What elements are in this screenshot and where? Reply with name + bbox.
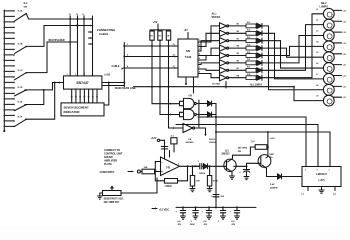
wire row 4 to lamp 5 xyxy=(269,48,324,57)
svg-text:S-1B: S-1B xyxy=(18,44,23,46)
svg-text:+12 VDC: +12 VDC xyxy=(159,208,170,212)
svg-text:SEVEN SEGMENT: SEVEN SEGMENT xyxy=(64,106,90,110)
connecting cable trunk wire xyxy=(92,16,94,76)
pullup top rail xyxy=(150,29,171,31)
7442 ground stubs xyxy=(185,77,187,84)
wire scan rail to lamp 9 xyxy=(293,87,295,101)
diode D11 1N914 xyxy=(204,164,208,169)
lamp I8 NE-2 neon bulb xyxy=(323,84,334,95)
inverter gate U4d xyxy=(220,45,227,51)
svg-text:15: 15 xyxy=(173,44,175,46)
svg-text:MULTIPLEXER: MULTIPLEXER xyxy=(49,40,65,42)
wire loop 7447 to indicator xyxy=(104,83,109,106)
svg-text:6: 6 xyxy=(92,74,93,76)
svg-text:SN7404: SN7404 xyxy=(212,16,221,19)
capacitor C3 electrolytic xyxy=(246,166,248,169)
wire lamp9 feed continues xyxy=(294,100,324,102)
seven segment indicator box xyxy=(61,103,104,116)
lamp I5 return wire xyxy=(333,53,341,55)
wire inverter out row 8 xyxy=(229,77,246,79)
wire row 1 to lamp 8 xyxy=(269,26,324,90)
svg-text:7442: 7442 xyxy=(185,55,192,59)
filter capacitor C5 xyxy=(195,206,197,208)
resistor R8 xyxy=(246,76,256,80)
7442 Vcc pin stub xyxy=(187,33,189,40)
switch S-1D wiper arm xyxy=(15,90,27,96)
inverter gate U4e xyxy=(220,52,227,58)
svg-text:25V: 25V xyxy=(232,224,236,226)
feedback resistor R13 1MEG xyxy=(178,166,188,181)
svg-text:MAIN SCAN LINE: MAIN SCAN LINE xyxy=(115,87,136,90)
diode D8 1N914 xyxy=(257,75,262,80)
svg-text:INDICATOR: INDICATOR xyxy=(64,110,81,114)
wire from S-1F riser xyxy=(26,83,55,120)
svg-text:6: 6 xyxy=(178,164,179,166)
wires 7442 outputs to inverter inputs xyxy=(198,26,220,42)
gate U5c inverter xyxy=(183,124,193,133)
Q2 emitter wire xyxy=(262,165,277,176)
wire row 7 to lamp 2 xyxy=(269,25,324,71)
svg-text:AUDIO INPUT: AUDIO INPUT xyxy=(100,171,116,174)
wire main scan rail xyxy=(112,85,124,87)
wire row 5 to lamp 4 xyxy=(269,46,324,55)
wire inverter out row 6 xyxy=(229,62,246,64)
gate U5a xyxy=(184,98,195,108)
transistor Q1 2N2222 xyxy=(224,159,236,171)
filter capacitor C8 xyxy=(236,206,238,208)
audio input jack J1 xyxy=(137,170,140,173)
lamp I8 return wire xyxy=(333,85,341,87)
svg-text:(+5V): (+5V) xyxy=(319,179,325,182)
svg-text:12: 12 xyxy=(76,14,78,16)
svg-text:SN7400: SN7400 xyxy=(186,141,195,144)
wire inverter out row 7 xyxy=(229,69,246,71)
svg-text:LM340-5: LM340-5 xyxy=(316,172,327,176)
diode D1 1N914 xyxy=(257,23,262,28)
wire inverter out row 2 xyxy=(229,32,246,34)
spare inverter tie xyxy=(225,82,227,89)
Q1 collector wire xyxy=(228,155,251,162)
wire BCD line 4 to 7442 xyxy=(124,67,178,69)
wire from S-1A to cable trunk xyxy=(26,14,92,20)
svg-text:400 OHM: 400 OHM xyxy=(238,147,248,150)
lamp I1 return wire xyxy=(333,9,341,11)
svg-text:1/6 7404: 1/6 7404 xyxy=(212,83,221,86)
cable conductor vertical xyxy=(123,43,125,87)
inverter gate U4a xyxy=(220,23,227,29)
wire 7447 left input xyxy=(53,82,64,84)
wire gate U5a out to diode D9 xyxy=(196,103,207,105)
svg-text:25V: 25V xyxy=(204,224,208,226)
diode D3 1N914 xyxy=(257,38,262,43)
switch bank S1 common bus wire xyxy=(3,10,5,131)
switch S-1C wiper arm xyxy=(15,73,27,80)
wire zener to regulator xyxy=(283,176,302,178)
svg-text:470K: 470K xyxy=(213,180,218,183)
inverter gate U4b xyxy=(220,30,227,36)
switch S-1F wiper arm xyxy=(15,119,27,126)
svg-text:ALL 1N914: ALL 1N914 xyxy=(250,84,263,87)
wire rail to regulator pin 1 xyxy=(198,117,306,167)
pullup R9 drop wire to gate G1 xyxy=(151,30,153,31)
inverter gate U4c xyxy=(220,38,227,44)
svg-text:−: − xyxy=(161,161,163,165)
svg-text:11: 11 xyxy=(82,14,84,16)
wire to Q1 base xyxy=(208,165,227,167)
svg-text:CONNECTING: CONNECTING xyxy=(97,28,115,32)
lamp I5 NE-2 neon bulb xyxy=(323,52,334,63)
IC U2 SN7447 decoder-driver box xyxy=(64,76,102,89)
resistor R11 1K xyxy=(166,31,170,40)
resistor R7 xyxy=(246,68,256,72)
resistor R12 10K xyxy=(142,169,155,174)
regulator bottom stubs xyxy=(307,187,309,191)
svg-text:2: 2 xyxy=(84,74,85,76)
lamp I1 NE-2 neon bulb xyxy=(323,8,334,19)
transistor Q2 power xyxy=(258,155,271,168)
svg-text:2N2222: 2N2222 xyxy=(222,154,231,156)
wire BCD line 2 to 7442 xyxy=(124,56,178,58)
diode D9 xyxy=(208,101,212,106)
wire 7447 right pin to cable node xyxy=(102,82,124,84)
wire R17 to tap xyxy=(267,146,268,148)
svg-text:1 MEG: 1 MEG xyxy=(165,186,172,188)
svg-text:+5V: +5V xyxy=(188,96,193,98)
switch bank contact stubs xyxy=(4,10,13,12)
7447 segment output wires a-g xyxy=(71,89,73,103)
diode D10 xyxy=(208,112,212,117)
pullup R10 drop wire to gate G2 xyxy=(160,40,180,114)
diode D6 1N914 xyxy=(257,60,262,65)
svg-text:S-1E: S-1E xyxy=(18,102,23,104)
resistor R1 xyxy=(246,24,256,28)
wire inverter out row 3 xyxy=(229,40,246,42)
inverter gate U4f xyxy=(220,60,227,66)
wire BCD line 1 to 7442 xyxy=(124,45,178,47)
lamp I6 NE-2 neon bulb xyxy=(323,63,334,74)
lamp I4 return wire xyxy=(333,42,341,44)
lamp I7 NE-2 neon bulb xyxy=(323,74,334,85)
resistor R15 470K to ground xyxy=(209,166,211,175)
svg-text:10K: 10K xyxy=(144,167,148,169)
wire 7447 pin risers xyxy=(69,19,71,76)
svg-text:3: 3 xyxy=(329,169,330,171)
wire input to R12 xyxy=(140,171,142,173)
resistor R6 xyxy=(246,61,256,65)
lamp I7 return wire xyxy=(333,75,341,77)
svg-text:+12V: +12V xyxy=(270,138,276,140)
resistor R10 1K xyxy=(158,31,162,40)
resistor R9 1K xyxy=(150,31,154,40)
resistor R5 xyxy=(246,54,256,58)
svg-text:LAMPS: LAMPS xyxy=(320,6,329,9)
svg-text:+: + xyxy=(161,170,163,174)
svg-text:741: 741 xyxy=(166,166,171,170)
svg-text:+5V: +5V xyxy=(184,30,189,32)
wire inverter out row 4 xyxy=(229,47,246,49)
svg-text:2: 2 xyxy=(317,169,318,171)
capacitor C9 on vertical bus xyxy=(213,195,219,197)
svg-text:13: 13 xyxy=(173,66,175,68)
IC U6 LM340-5 regulator box xyxy=(302,167,341,187)
svg-text:(+5V): (+5V) xyxy=(105,75,111,77)
diode D5 1N914 xyxy=(257,53,262,58)
svg-text:7: 7 xyxy=(67,74,68,76)
wire inverter out row 5 xyxy=(229,55,246,57)
svg-text:1N914: 1N914 xyxy=(209,141,216,144)
svg-text:1: 1 xyxy=(305,169,306,171)
svg-text:+12V: +12V xyxy=(151,137,157,140)
lamp I4 NE-2 neon bulb xyxy=(323,41,334,52)
wire row 2 to lamp 7 xyxy=(269,33,324,79)
+12V strip wire xyxy=(176,206,256,208)
vertical bus to power strip xyxy=(215,104,217,208)
wire +12 tap to loop xyxy=(267,132,269,157)
svg-text:10K: 10K xyxy=(196,181,200,183)
+5V feed wire xyxy=(157,24,159,30)
IC U3 SN7442 BCD decoder box xyxy=(178,39,198,77)
resistor R4 xyxy=(246,46,256,50)
regulator ground xyxy=(321,187,323,191)
wire op-amp output xyxy=(180,165,199,167)
capacitor C2 .1 coupling xyxy=(200,164,202,170)
zener diode D12 xyxy=(278,174,282,179)
resistor R17 400 ohm xyxy=(255,145,267,150)
svg-text:DISC: DISC xyxy=(190,224,195,226)
diode D2 1N914 xyxy=(257,31,262,36)
wire gate U5c output arrow xyxy=(195,128,206,135)
diode D4 1N914 xyxy=(257,46,262,51)
lamp I2 return wire xyxy=(333,20,341,22)
svg-text:25V: 25V xyxy=(178,224,182,226)
pullup R11 drop wire to gate G3 xyxy=(169,40,184,128)
svg-text:ZENER: ZENER xyxy=(270,187,278,189)
wire Q2 base from Q1 xyxy=(234,163,261,166)
wire from S-1C via riser xyxy=(26,42,77,73)
op-amp power pins xyxy=(164,140,166,159)
switch S-1B wiper arm xyxy=(15,46,27,53)
sensitivity trim pot R16 xyxy=(121,178,157,193)
diode D7 1N914 xyxy=(257,68,262,73)
lamp I3 return wire xyxy=(333,31,341,33)
lamp I3 NE-2 neon bulb xyxy=(323,30,334,41)
inverter gate U4g xyxy=(220,67,227,73)
svg-text:CABLE: CABLE xyxy=(99,32,108,36)
svg-text:SENSITIVITY ADJ.: SENSITIVITY ADJ. xyxy=(104,198,124,201)
svg-text:25V: 25V xyxy=(221,196,225,198)
resistor R3 xyxy=(246,39,256,43)
wire rail to regulator pin 3 xyxy=(216,132,330,167)
lamp I9 NE-2 neon bulb xyxy=(323,95,334,106)
wire Q2 collector xyxy=(266,157,268,158)
wire loop riser xyxy=(250,147,255,155)
filter capacitor C6 xyxy=(208,206,210,208)
lamp I9 return wire xyxy=(333,96,341,98)
svg-text:SN7447: SN7447 xyxy=(76,81,88,85)
filter capacitor C4 xyxy=(182,206,184,208)
svg-text:+5V: +5V xyxy=(153,20,158,24)
lamp I6 return wire xyxy=(333,64,341,66)
resistor R2 xyxy=(246,31,256,35)
gate U5b xyxy=(184,109,195,119)
switch S-1A wiper arm xyxy=(15,14,27,22)
svg-text:1: 1 xyxy=(75,74,76,76)
svg-text:1N914: 1N914 xyxy=(199,172,206,175)
wire gate output tie xyxy=(198,100,200,127)
wire from S-1B to cable trunk xyxy=(26,26,92,47)
svg-text:(+): (+) xyxy=(333,194,336,196)
svg-text:S-1C: S-1C xyxy=(18,70,23,72)
Q1 emitter wire to ground xyxy=(228,169,233,176)
filter capacitor C7 xyxy=(222,206,224,208)
svg-text:(-): (-) xyxy=(302,194,304,196)
svg-text:SN: SN xyxy=(186,49,190,53)
switch S-1E wiper arm xyxy=(15,105,27,111)
wire row 3 to lamp 6 xyxy=(269,41,324,68)
svg-text:S-1A: S-1A xyxy=(18,10,23,13)
svg-text:S-1D: S-1D xyxy=(18,87,23,89)
svg-text:CABLE: CABLE xyxy=(112,65,120,68)
svg-text:10K TRIM POT: 10K TRIM POT xyxy=(104,202,121,204)
wire row 6 to lamp 3 xyxy=(269,36,324,63)
wire from S-1D to 7447 left pin xyxy=(25,83,61,90)
inverter gate U4h xyxy=(220,75,227,81)
wire rail to regulator pin 2 xyxy=(176,125,318,167)
svg-text:13: 13 xyxy=(69,14,71,16)
svg-text:14: 14 xyxy=(173,53,175,56)
wire row 8 to lamp 1 xyxy=(269,14,324,78)
wire gate U5b out to diode D10 xyxy=(196,114,207,116)
svg-text:S-1F: S-1F xyxy=(18,116,23,118)
wire R12 to op-amp non-inverting input xyxy=(155,171,161,173)
resistor R14 10K to ground xyxy=(192,166,194,175)
wire inverter out row 1 xyxy=(229,25,246,27)
svg-text:PLATE: PLATE xyxy=(104,163,112,166)
svg-text:5.6V: 5.6V xyxy=(270,184,275,186)
svg-text:S-1: S-1 xyxy=(24,1,29,5)
op-amp U1 741 xyxy=(161,157,180,176)
wire from S-1E riser xyxy=(25,90,44,105)
capacitor C1 0.1 bypass xyxy=(171,138,177,144)
lamp I2 NE-2 neon bulb xyxy=(323,19,334,30)
svg-text:HEP: HEP xyxy=(270,154,275,156)
